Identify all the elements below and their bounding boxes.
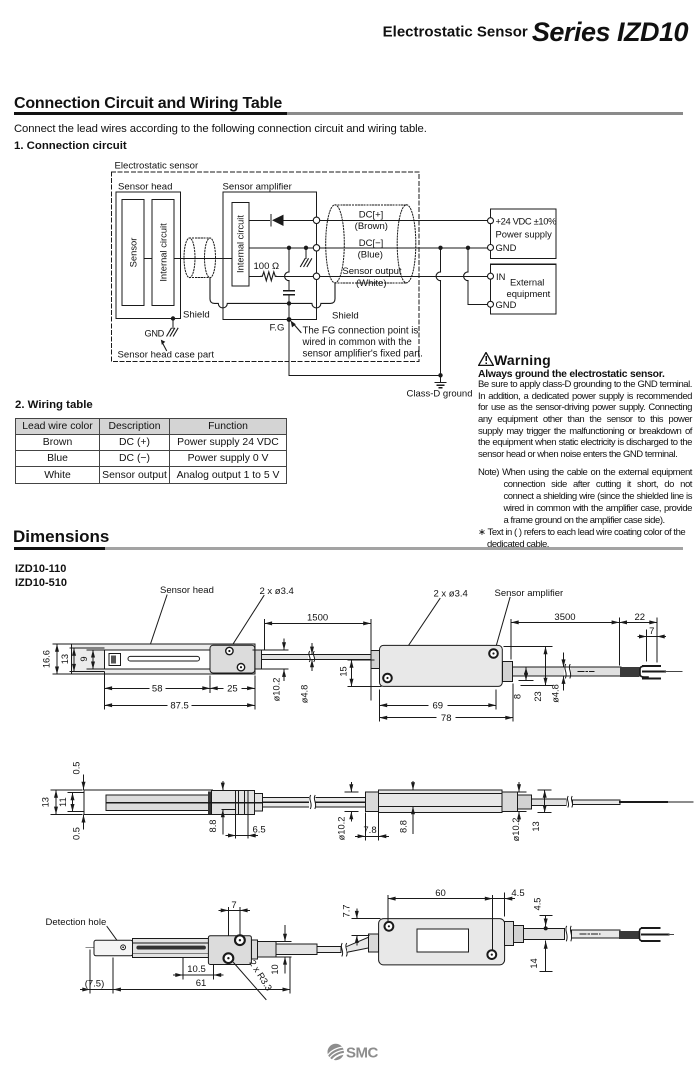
sensor head box (116, 192, 181, 319)
wire: F.G to class-D ground (289, 374, 441, 376)
head tube (133, 938, 209, 957)
dim 13 (60, 648, 104, 672)
side lead wire (620, 801, 693, 803)
svg-text:Class-D ground: Class-D ground (407, 389, 473, 400)
amp label window (417, 929, 468, 952)
svg-text:Sensor head: Sensor head (160, 585, 214, 596)
amp screw hole 1 (383, 674, 392, 683)
svg-text:8.8: 8.8 (208, 820, 218, 833)
svg-text:GND: GND (145, 328, 165, 338)
model numbers (15, 562, 67, 590)
dim 7 (fork) (638, 626, 666, 661)
head end cap (94, 940, 133, 956)
svg-text:ø4.8: ø4.8 (551, 684, 561, 703)
head body plate (72, 644, 255, 674)
bottom cable sheath end (619, 931, 639, 939)
svg-text:7.8: 7.8 (363, 825, 376, 836)
svg-text:7: 7 (649, 626, 654, 637)
svg-text:22: 22 (635, 612, 646, 623)
svg-text:ø4.8: ø4.8 (300, 685, 310, 704)
dim 8.8 (left) (208, 782, 235, 835)
case part arrow (163, 343, 167, 351)
head-amp cable (262, 654, 372, 659)
dim 87.5 (104, 693, 254, 712)
right cable shield (dotted cylinder) (326, 205, 416, 283)
svg-text:ø10.2: ø10.2 (511, 818, 521, 842)
label: 2 x R3.3 (234, 958, 274, 999)
amp side body (379, 790, 502, 813)
svg-text:GND: GND (496, 299, 517, 310)
dim 0.5 bottom (72, 815, 84, 840)
dim 60 (388, 888, 493, 950)
electrostatic sensor dashed enclosure (112, 172, 420, 362)
side cable (263, 798, 366, 807)
dim 6.5 (226, 815, 266, 839)
svg-text:69: 69 (433, 701, 444, 712)
dim 69 (380, 690, 497, 721)
capacitor C1 (284, 290, 294, 292)
amp inlet bushing (371, 650, 380, 668)
svg-text:13: 13 (531, 821, 541, 831)
dim 13 (side amp) (531, 790, 551, 832)
svg-text:equipment: equipment (507, 288, 551, 299)
power / equipment terminals (488, 218, 494, 308)
svg-text:10.5: 10.5 (187, 964, 206, 975)
node: shield junction (287, 301, 291, 305)
amp outlet bushing (502, 661, 512, 681)
dim 16.6 (42, 644, 72, 674)
svg-text:IN: IN (496, 271, 505, 282)
svg-text:Sensor head: Sensor head (118, 182, 172, 193)
svg-text:Sensor output: Sensor output (342, 266, 402, 277)
svg-text:2 x ø3.4: 2 x ø3.4 (434, 589, 468, 600)
svg-text:Sensor: Sensor (128, 238, 139, 268)
head label window (104, 650, 210, 669)
svg-text:100 Ω: 100 Ω (254, 261, 280, 272)
wire W2 DC(-) (249, 247, 488, 249)
dim 22 (619, 612, 657, 662)
svg-text:14: 14 (529, 958, 539, 968)
amplifier internal ground (305, 248, 307, 259)
block screw 1 (235, 935, 245, 945)
svg-text:25: 25 (227, 684, 238, 695)
svg-text:3500: 3500 (554, 612, 575, 623)
svg-text:ø10.2: ø10.2 (336, 817, 346, 841)
junction dots on W2 (287, 246, 470, 250)
dim 7.7 (341, 905, 380, 945)
block step (251, 940, 257, 959)
head screw hole 1 (226, 647, 233, 654)
svg-text:0.5: 0.5 (72, 762, 82, 775)
SMC logo (326, 1042, 386, 1067)
svg-text:58: 58 (152, 684, 163, 695)
diode D1 (270, 215, 272, 227)
svg-text:15: 15 (339, 666, 349, 676)
detection hole (121, 945, 126, 950)
power supply box (491, 209, 557, 259)
svg-text:13: 13 (60, 654, 70, 664)
head end bar (208, 791, 212, 814)
svg-text:wired in common with the: wired in common with the (302, 337, 412, 348)
wire W1 DC(+) (249, 219, 270, 221)
amplifier internal circuit block (232, 203, 249, 287)
wire W3 sensor output (249, 275, 261, 277)
svg-text:Detection hole: Detection hole (46, 917, 107, 928)
intro paragraph (14, 123, 427, 135)
svg-text:ø10.2: ø10.2 (272, 678, 282, 702)
dim 4.5 (vertical) (533, 898, 552, 931)
wire: sensor to head internal circuit (144, 258, 152, 260)
connector detail (109, 654, 121, 666)
dim (7.5) (80, 950, 113, 993)
block bushing (257, 942, 276, 957)
dim 3500 (511, 612, 619, 665)
external equipment box (491, 264, 557, 314)
amp side inlet bushing (365, 792, 378, 812)
note arrow to F.G (293, 323, 301, 332)
svg-text:Shield: Shield (183, 309, 210, 320)
svg-text:The FG connection point is: The FG connection point is (303, 325, 419, 336)
amplifier body (380, 645, 503, 686)
amp bottom outlet bushing (505, 921, 524, 945)
svg-text:External: External (510, 277, 544, 288)
dim 61 (113, 958, 290, 993)
dim 13 (side head) (41, 790, 83, 814)
head internal circuit block (152, 200, 174, 306)
svg-text:16.6: 16.6 (42, 650, 52, 668)
lead labels (342, 210, 402, 290)
svg-text:sensor amplifier's fixed part.: sensor amplifier's fixed part. (303, 349, 423, 360)
svg-text:(Brown): (Brown) (355, 221, 388, 232)
node: F.G point (287, 317, 292, 322)
svg-text:0.5: 0.5 (72, 827, 82, 840)
amp bottom inlet bushing (368, 934, 378, 952)
dim 0.5 top (72, 762, 84, 790)
svg-text:8.8: 8.8 (399, 820, 409, 833)
warning column (478, 348, 691, 551)
sensor element block (122, 200, 144, 306)
svg-text:78: 78 (441, 713, 452, 724)
svg-text:(Blue): (Blue) (358, 250, 383, 261)
left cable shield (dotted cylinder) (184, 238, 216, 278)
svg-text:87.5: 87.5 (170, 701, 189, 712)
amp bottom body (379, 919, 505, 965)
head side outline (84, 790, 213, 814)
dim 7 (block screws) (219, 900, 249, 935)
svg-text:Power supply: Power supply (496, 229, 553, 240)
svg-text:Sensor head case part: Sensor head case part (118, 349, 215, 360)
head screw hole 2 (237, 664, 244, 671)
dim dia 10.2 (side left) (336, 783, 358, 841)
svg-text:Electrostatic sensor: Electrostatic sensor (115, 161, 200, 172)
amp screw hole 2 (489, 649, 498, 658)
side connector block (212, 791, 255, 815)
svg-text:9: 9 (79, 657, 89, 662)
dim 58 (104, 672, 210, 695)
svg-text:Internal circuit: Internal circuit (236, 215, 246, 273)
sloped cable to amp (347, 937, 368, 952)
svg-text:GND: GND (496, 242, 517, 253)
head side body (106, 795, 213, 811)
svg-text:(7.5): (7.5) (85, 978, 105, 989)
svg-text:7.7: 7.7 (341, 905, 351, 918)
dim 15 (339, 660, 381, 686)
head side split line (106, 802, 263, 804)
note text (302, 325, 423, 359)
svg-text:4.5: 4.5 (533, 898, 543, 911)
svg-text:F.G: F.G (270, 323, 285, 334)
axis centerline (86, 946, 133, 948)
class-D ground symbol (435, 375, 446, 388)
svg-text:61: 61 (196, 978, 207, 989)
dim dia 4.8 (left) (300, 644, 317, 704)
subheading 2 (15, 399, 93, 411)
svg-text:4.5: 4.5 (511, 888, 524, 899)
wire: W2 to class-D ground (440, 248, 442, 272)
amp bottom screw 1 (385, 922, 394, 931)
dim 1500 (264, 613, 371, 700)
output cable (513, 667, 622, 676)
subheading 1 (14, 140, 127, 152)
section heading: Connection Circuit and Wiring Table (14, 95, 282, 113)
head case ground node (171, 316, 175, 320)
svg-text:(White): (White) (356, 278, 387, 289)
dim 8 (512, 667, 533, 699)
dim 10 (bottom) (270, 926, 291, 975)
shield bus wire (210, 278, 335, 308)
bottom cable (276, 944, 317, 954)
head cable bushing (255, 650, 262, 669)
dim 11 (58, 793, 84, 812)
dim dia 10.2 (253, 639, 288, 701)
svg-text:11: 11 (58, 797, 68, 807)
svg-text:1500: 1500 (307, 613, 328, 624)
svg-text:60: 60 (435, 888, 446, 899)
dim dia 10.2 (side right) (511, 783, 526, 842)
wire: W2 to external equipment GND (467, 248, 469, 272)
lead wire fork (640, 666, 648, 677)
dim 9 (79, 650, 104, 669)
cable sheath end (620, 667, 640, 677)
sensing slot (bottom) (136, 946, 206, 950)
svg-text:SMC: SMC (346, 1045, 379, 1062)
head mounting block (208, 936, 251, 965)
svg-text:7: 7 (231, 900, 236, 911)
dim dia 4.8 (right) (551, 653, 571, 703)
svg-text:6.5: 6.5 (253, 825, 266, 836)
block screw 2 (224, 953, 234, 963)
dim 10.5 (173, 958, 223, 979)
amp side outlet bushing (502, 792, 531, 812)
dim 78 (380, 684, 514, 724)
dim 8.8 (right) (399, 782, 421, 834)
dim 25 (210, 676, 255, 695)
svg-text:+24 VDC ±10%: +24 VDC ±10% (496, 215, 557, 226)
svg-text:Sensor amplifier: Sensor amplifier (223, 182, 293, 193)
dim 4.5 (horizontal) (493, 888, 525, 916)
capacitor branch from W2 to F.G (288, 248, 290, 272)
svg-text:DC[+]: DC[+] (359, 210, 384, 221)
wiring table (15, 418, 287, 484)
svg-text:10: 10 (270, 964, 280, 974)
svg-text:Internal circuit: Internal circuit (158, 223, 169, 282)
dim 14 (529, 941, 552, 971)
side connector step (254, 794, 262, 811)
wire: head to amplifier (174, 258, 232, 260)
svg-text:Shield: Shield (332, 310, 359, 321)
sensing slot (128, 656, 200, 661)
side output cable (531, 799, 566, 806)
resistor R1 (261, 272, 276, 281)
bottom lead wire fork (640, 928, 648, 941)
amp bottom screw 2 (487, 950, 496, 959)
head clamp block (210, 645, 255, 673)
svg-text:13: 13 (41, 797, 51, 807)
bottom output cable (523, 929, 564, 940)
sensor amplifier box (223, 192, 317, 320)
page header: product title (0, 17, 688, 48)
dim 23 (504, 647, 552, 702)
svg-text:23: 23 (533, 691, 543, 701)
svg-text:Sensor amplifier: Sensor amplifier (495, 588, 564, 599)
svg-text:DC[−]: DC[−] (359, 238, 384, 249)
dim 7.8 (356, 813, 389, 840)
svg-text:8: 8 (512, 694, 522, 699)
svg-text:2 x ø3.4: 2 x ø3.4 (260, 586, 294, 597)
amplifier output terminals (313, 217, 319, 279)
section heading: Dimensions (13, 527, 109, 547)
head tube liner lines (133, 942, 209, 944)
